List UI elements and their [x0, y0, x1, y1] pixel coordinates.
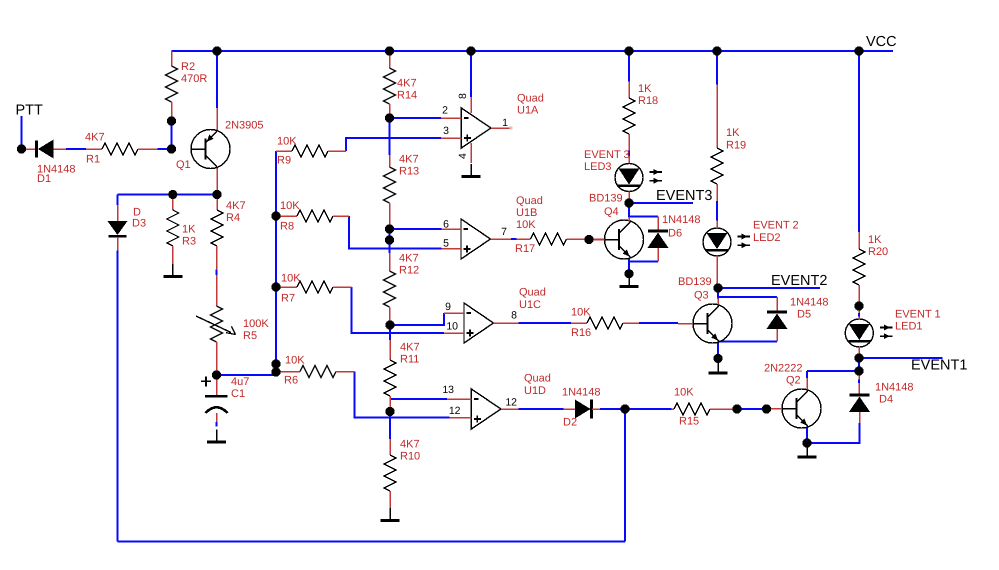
svg-text:VCC: VCC: [866, 34, 897, 50]
wire ladder R11-R10 segment: [389, 412, 391, 440]
wire D6 bottom return: [629, 261, 658, 263]
svg-text:6: 6: [443, 219, 449, 231]
svg-text:8: 8: [457, 93, 469, 99]
resistor R13: [384, 153, 420, 229]
wire bottom rail riser to D2 node: [624, 409, 626, 542]
resistor R19: [711, 85, 746, 202]
node Q1 base: [167, 144, 176, 153]
svg-text:5: 5: [443, 238, 449, 250]
resistor R9: [276, 135, 346, 166]
diode D5: [767, 297, 829, 342]
junction rail R19: [712, 46, 721, 55]
wire D4 bottom corner: [807, 423, 860, 443]
svg-text:Q3: Q3: [694, 289, 709, 301]
junction LED2 Q3 collector EVENT2: [713, 283, 722, 292]
svg-text:10K: 10K: [516, 219, 536, 231]
svg-text:PTT: PTT: [16, 103, 44, 119]
wire ladder R12-R11 segment: [389, 325, 391, 340]
svg-text:R15: R15: [679, 415, 699, 427]
junction Q2 emitter D4: [802, 438, 811, 447]
ground Q3: [709, 361, 728, 374]
svg-text:2: 2: [442, 105, 448, 117]
svg-text:R16: R16: [571, 327, 591, 339]
wire U1D out to D2: [519, 408, 564, 410]
wire divider feed column: [275, 151, 277, 375]
junction rail VCC column: [854, 46, 863, 55]
wire EVENT1 column segment: [858, 358, 860, 371]
svg-text:D2: D2: [563, 417, 577, 429]
wire D3 top corner: [117, 195, 119, 206]
net label EVENT1: [911, 358, 967, 374]
svg-text:EVENT 3: EVENT 3: [584, 149, 630, 161]
resistor R14: [384, 51, 418, 118]
wire PTT input drop: [21, 116, 23, 149]
wire D2 to node: [600, 408, 625, 410]
svg-text:10K: 10K: [674, 386, 694, 398]
svg-text:4K7: 4K7: [226, 200, 246, 212]
svg-text:U1D: U1D: [524, 385, 546, 397]
svg-text:Quad: Quad: [517, 92, 544, 104]
net label EVENT2: [771, 273, 827, 289]
wire Q3 emitter: [717, 343, 719, 359]
svg-text:EVENT 2: EVENT 2: [753, 220, 799, 232]
resistor R6: [276, 354, 355, 386]
svg-text:4K7: 4K7: [399, 252, 419, 264]
wire base-node horizontal y194: [118, 194, 218, 196]
wire R20 top: [858, 51, 860, 232]
wire R18-LED3 stub: [628, 151, 630, 157]
LED LED3: [584, 149, 662, 203]
svg-text:R19: R19: [726, 139, 746, 151]
svg-text:D6: D6: [668, 228, 682, 240]
junction ladder pin5: [385, 235, 394, 244]
wire D4 top stub: [858, 380, 860, 384]
junction R8 tap: [271, 211, 280, 220]
junction R15 out: [732, 404, 741, 413]
svg-text:2N2222: 2N2222: [764, 362, 803, 374]
svg-text:12: 12: [505, 397, 517, 409]
svg-text:Q2: Q2: [786, 374, 801, 386]
junction R7 tap: [271, 282, 280, 291]
svg-text:R10: R10: [400, 451, 420, 463]
junction rail R14: [385, 46, 394, 55]
svg-text:10K: 10K: [571, 306, 591, 318]
wire ladder R14-R13 segment: [389, 118, 391, 155]
wire U1B out stub: [511, 238, 516, 240]
svg-text:Q4: Q4: [604, 206, 619, 218]
wire R6 to U1D pin12: [355, 372, 450, 418]
wire Q1 collector to rail: [216, 51, 218, 108]
svg-text:R18: R18: [638, 95, 658, 107]
wire Q2 collector riser: [806, 371, 808, 378]
net label VCC: [866, 34, 897, 50]
wire D1 to R1: [66, 148, 86, 150]
svg-text:4K7: 4K7: [400, 341, 420, 353]
wire ladder tap to U1B pin6: [390, 228, 442, 230]
wire R16 to Q3 base: [639, 322, 678, 324]
wire Q4 collector step to D6: [629, 203, 658, 217]
potentiometer R5: [196, 306, 269, 375]
junction ladder pin9: [385, 320, 394, 329]
resistor R18: [623, 82, 658, 165]
svg-text:R2: R2: [181, 61, 195, 73]
svg-text:4K7: 4K7: [85, 132, 105, 144]
LED LED1: [845, 306, 940, 358]
resistor R4: [211, 195, 246, 307]
svg-text:7: 7: [501, 226, 507, 238]
svg-text:1K: 1K: [182, 223, 196, 235]
svg-text:13: 13: [442, 384, 454, 396]
resistor R7: [276, 272, 352, 304]
wire EVENT2 net: [718, 287, 820, 289]
svg-text:D5: D5: [797, 309, 811, 321]
wire R2 bottom to Q1 base node: [171, 121, 173, 149]
junction Q1 collector R4: [212, 190, 221, 199]
svg-text:470R: 470R: [181, 73, 207, 85]
diode D6: [648, 214, 701, 262]
junction Q3 emitter: [713, 354, 722, 363]
resistor R3: [167, 195, 196, 265]
svg-text:2N3905: 2N3905: [225, 119, 264, 131]
wire Q2 base net from EVENT1 column: [807, 370, 859, 372]
svg-text:D4: D4: [879, 393, 893, 405]
junction ladder pin2: [385, 113, 394, 122]
svg-text:10K: 10K: [281, 272, 301, 284]
svg-text:Quad: Quad: [519, 287, 546, 299]
svg-text:R6: R6: [284, 374, 298, 386]
resistor R10: [384, 438, 420, 508]
svg-text:EVENT3: EVENT3: [656, 188, 712, 204]
junction R3 tap: [168, 190, 177, 199]
svg-text:1N4148: 1N4148: [562, 386, 601, 398]
svg-text:LED3: LED3: [584, 161, 612, 173]
svg-text:9: 9: [445, 301, 451, 313]
wire D3 to bottom rail: [117, 251, 119, 542]
wire node to R15: [625, 408, 672, 410]
svg-text:BD139: BD139: [589, 193, 623, 205]
transistor Q1 2N3905: [176, 108, 264, 195]
svg-text:1K: 1K: [638, 83, 652, 95]
junction ladder pin6: [385, 224, 394, 233]
transistor Q2 2N2222: [764, 362, 821, 428]
wire R7 to U1C pin10: [352, 287, 445, 333]
svg-text:R11: R11: [400, 354, 419, 366]
junction EVENT1 D4: [854, 366, 863, 375]
resistor R1: [85, 132, 158, 166]
svg-text:1N4148: 1N4148: [875, 382, 914, 394]
svg-text:100K: 100K: [243, 318, 269, 330]
wire Q3 step to D5: [718, 296, 777, 298]
wire C1 gnd stub: [216, 422, 218, 427]
svg-text:U1B: U1B: [516, 207, 537, 219]
ground C1: [207, 430, 226, 443]
junction rail Q1: [212, 46, 221, 55]
svg-text:4K7: 4K7: [400, 438, 420, 450]
svg-text:R4: R4: [226, 212, 240, 224]
diode D4: [849, 371, 914, 423]
junction R6 tap lower: [271, 367, 280, 376]
junction LED1 EVENT1: [854, 353, 863, 362]
resistor R16: [571, 306, 639, 339]
svg-text:C1: C1: [231, 388, 245, 400]
op-amp U1D: [442, 373, 551, 429]
junction LED3 Q4 collector EVENT3: [624, 198, 633, 207]
wire R19 top: [716, 51, 718, 85]
wire R8 to U1B pin5: [349, 216, 442, 249]
svg-text:3: 3: [443, 125, 449, 137]
svg-text:R9: R9: [277, 154, 291, 166]
resistor R8: [276, 200, 349, 233]
svg-text:R7: R7: [281, 292, 295, 304]
net label PTT: [16, 103, 44, 119]
svg-text:1N4148: 1N4148: [790, 297, 829, 309]
wire R4-R5 stub: [216, 270, 218, 276]
wire ladder R13-R12 segment: [389, 229, 391, 253]
svg-text:BD139: BD139: [678, 276, 712, 288]
svg-text:1K: 1K: [868, 234, 882, 246]
svg-text:10: 10: [446, 321, 458, 333]
junction rail R18: [624, 46, 633, 55]
svg-text:1N4148: 1N4148: [662, 214, 701, 226]
wire VCC top rail: [172, 50, 894, 52]
wire R15 to Q2 base: [737, 408, 767, 410]
svg-text:R12: R12: [399, 265, 419, 277]
wire U1A pin8 to rail: [470, 51, 472, 97]
svg-text:4u7: 4u7: [231, 376, 249, 388]
wire R9 to U1A pin3: [346, 138, 441, 151]
junction Q4 emitter: [624, 269, 633, 278]
diode D1: [22, 140, 76, 185]
svg-text:R1: R1: [86, 154, 100, 166]
junction rail U1A pin8: [466, 46, 475, 55]
svg-text:U1C: U1C: [519, 299, 541, 311]
ground R3: [163, 264, 182, 277]
LED LED2: [703, 220, 799, 288]
ground Q4: [620, 274, 639, 287]
wire Q2 emitter: [806, 428, 808, 444]
svg-text:R8: R8: [280, 220, 294, 232]
op-amp U1B: [442, 195, 543, 259]
junction ladder pin12: [385, 407, 394, 416]
svg-text:R5: R5: [243, 330, 257, 342]
diode D2: [562, 386, 601, 428]
wire Q4 emitter: [628, 258, 630, 274]
svg-text:R17: R17: [515, 243, 535, 255]
resistor R20: [853, 232, 888, 306]
wire D5 bottom return: [718, 341, 777, 343]
svg-text:R14: R14: [397, 90, 417, 102]
svg-text:EVENT1: EVENT1: [911, 358, 967, 374]
svg-text:4: 4: [457, 153, 469, 159]
diode D3: [108, 205, 147, 251]
junction D2 R15 node: [620, 404, 629, 413]
wire ladder tap to U1A pin2: [390, 117, 442, 119]
svg-text:4K7: 4K7: [397, 77, 417, 89]
resistor R15: [672, 386, 737, 427]
wire Q3 collector step to D5: [717, 288, 719, 298]
transistor Q4 BD139: [589, 193, 644, 259]
svg-text:12: 12: [449, 405, 461, 417]
svg-text:8: 8: [511, 310, 517, 322]
wire EVENT3 net: [629, 202, 693, 204]
svg-text:D: D: [133, 206, 141, 218]
svg-text:Quad: Quad: [516, 195, 543, 207]
svg-text:Quad: Quad: [524, 373, 551, 385]
svg-text:1K: 1K: [726, 127, 740, 139]
svg-text:D1: D1: [37, 173, 51, 185]
op-amp U1C: [444, 287, 546, 343]
wire R19-LED2 stub: [716, 201, 718, 221]
wire ladder tap to U1C pin9: [390, 313, 444, 325]
ground Q2: [798, 445, 817, 458]
junction C1 R5 node: [212, 370, 221, 379]
junction R2-base: [167, 116, 176, 125]
svg-text:10K: 10K: [285, 354, 305, 366]
wire R18 top: [628, 51, 630, 82]
junction R20 LED1: [854, 301, 863, 310]
svg-text:LED2: LED2: [753, 232, 781, 244]
capacitor C1: [201, 375, 249, 422]
svg-text:D3: D3: [132, 218, 146, 230]
junction Q2 base: [762, 404, 771, 413]
net label EVENT3: [656, 188, 712, 204]
svg-text:EVENT2: EVENT2: [771, 273, 827, 289]
op-amp U1A: [441, 92, 544, 163]
ground U1A pin4: [462, 164, 481, 177]
svg-text:R20: R20: [868, 246, 888, 258]
transistor Q3 BD139: [678, 276, 732, 343]
resistor R12: [384, 252, 420, 325]
svg-text:EVENT 1: EVENT 1: [895, 308, 941, 320]
ground R10: [381, 508, 400, 521]
wire ladder tap to U1D pin13: [390, 398, 447, 400]
svg-text:1: 1: [502, 117, 508, 129]
svg-text:4K7: 4K7: [399, 153, 419, 165]
svg-text:10K: 10K: [277, 135, 297, 147]
resistor R2: [166, 51, 208, 121]
svg-text:R13: R13: [399, 166, 419, 178]
svg-text:U1A: U1A: [517, 105, 539, 117]
wire EVENT1 net: [859, 357, 943, 359]
wire bottom rail: [118, 541, 626, 543]
wire C1 to R6 node: [217, 374, 277, 376]
svg-text:R3: R3: [182, 236, 196, 248]
resistor R17: [516, 233, 604, 245]
wire R1 to base node: [158, 148, 172, 150]
svg-text:LED1: LED1: [895, 321, 923, 333]
resistor R11: [384, 340, 420, 412]
junction R6 tap upper: [271, 359, 280, 368]
junction R17 Q4 base: [584, 235, 593, 244]
wire LED1 top stub: [858, 313, 860, 317]
svg-text:10K: 10K: [280, 200, 300, 212]
wire U1C out to R16: [518, 322, 571, 324]
node PTT input: [17, 144, 26, 153]
svg-text:Q1: Q1: [176, 159, 191, 171]
